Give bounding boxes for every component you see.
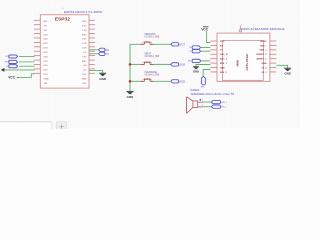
svg-text:EN: EN [44,21,47,23]
svg-text:1: 1 [202,101,203,103]
svg-text:IO_2: IO_2 [262,67,268,69]
svg-text:ADKEY_1: ADKEY_1 [256,58,267,61]
svg-text:SPK_1: SPK_1 [220,63,228,65]
svg-text:TX: TX [106,53,110,56]
svg-text:RX: RX [106,49,110,52]
svg-text:GND: GND [284,72,290,76]
svg-text:IO27: IO27 [179,42,185,46]
svg-text:VIN: VIN [44,83,48,85]
svg-text:GND: GND [99,77,107,81]
svg-text:K2-3.6X6.1_SMD: K2-3.6X6.1_SMD [145,56,160,58]
svg-text:USB_-: USB_- [260,45,267,47]
svg-text:1: 1 [62,8,63,10]
svg-text:VN: VN [44,30,47,32]
svg-text:GND: GND [127,95,135,99]
svg-text:BUSY: BUSY [260,41,267,43]
svg-text:MINI: MINI [236,60,240,67]
svg-text:2: 2 [202,105,203,107]
svg-text:K2-3.6X6.1_SMD: K2-3.6X6.1_SMD [145,37,160,39]
svg-text:IO26: IO26 [179,62,185,66]
svg-text:GND: GND [81,78,86,80]
svg-text:USB_+: USB_+ [259,50,267,52]
svg-text:GND: GND [262,63,267,65]
svg-text:DAC_R: DAC_R [220,53,228,56]
svg-text:VCC: VCC [201,28,209,32]
svg-text:ADKEY_2: ADKEY_2 [256,53,267,56]
svg-text:SPK_2: SPK_2 [221,107,227,109]
svg-text:ESP32-DEVKIT-V1-30PIN: ESP32-DEVKIT-V1-30PIN [64,10,103,14]
svg-text:GND: GND [4,62,9,64]
svg-text:DFPLAYER-MINI-MODULE: DFPLAYER-MINI-MODULE [241,27,284,31]
svg-text:K2-3.6X6.1_SMD: K2-3.6X6.1_SMD [145,75,160,77]
svg-text:DFPLAYER: DFPLAYER [245,53,249,70]
svg-text:VCC: VCC [220,41,225,43]
svg-text:3V3: 3V3 [5,56,8,58]
svg-text:GND: GND [220,67,225,69]
svg-text:VCC: VCC [8,76,15,80]
svg-text:GND: GND [193,69,199,73]
svg-text:RX: RX [220,45,224,47]
svg-text:ESP32: ESP32 [55,16,71,21]
svg-text:IO_1: IO_1 [262,72,268,74]
svg-text:DAC_L: DAC_L [220,58,228,61]
svg-text:SPK_1: SPK_1 [221,102,227,104]
svg-text:BUZZER1: BUZZER1 [191,89,200,92]
svg-text:SPEAKER-20mm-8ohm-0.5w-TH: SPEAKER-20mm-8ohm-0.5w-TH [191,93,235,96]
svg-text:GND: GND [44,78,49,80]
svg-text:IO25: IO25 [179,79,185,83]
svg-text:SPK_2: SPK_2 [220,72,228,74]
